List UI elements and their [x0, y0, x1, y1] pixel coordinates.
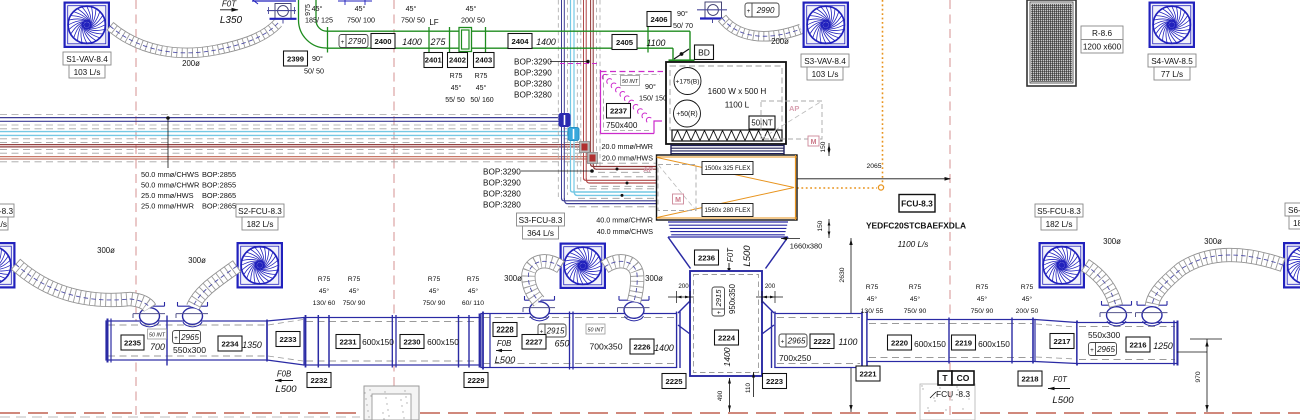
- riser insulation dashed: [557, 0, 559, 200]
- label box 2236: [695, 250, 719, 265]
- svg-text:45°: 45°: [466, 4, 477, 13]
- ribbed flex connector: [668, 222, 788, 235]
- pipe HWR insulation (dashed): [0, 152, 590, 154]
- svg-text:45°: 45°: [451, 84, 462, 92]
- label box 2229: [464, 373, 488, 388]
- svg-text:2790: 2790: [347, 37, 366, 46]
- label box 2218: [1018, 371, 1042, 386]
- svg-text:2915: 2915: [714, 289, 723, 308]
- label box 2406: [647, 12, 671, 27]
- FCU flex connector top: [671, 145, 784, 156]
- svg-text:L500: L500: [275, 384, 297, 395]
- flex fan S5 to duct: [1085, 265, 1116, 306]
- svg-text:182 L/s: 182 L/s: [1046, 220, 1073, 229]
- FCU filter strip: [672, 130, 782, 141]
- label +2965 c: [1089, 343, 1117, 356]
- svg-text:2400: 2400: [374, 37, 391, 46]
- svg-text:1400: 1400: [536, 37, 556, 47]
- FCU-8.3 zone box: [920, 384, 975, 420]
- svg-text:2229: 2229: [467, 376, 484, 385]
- svg-text:77 L/s: 77 L/s: [1161, 70, 1183, 79]
- svg-text:50/ 70: 50/ 70: [673, 21, 693, 30]
- svg-text:600x150: 600x150: [427, 337, 459, 347]
- plenum 2224: [690, 271, 762, 376]
- riser HWS red pair: [583, 0, 585, 178]
- svg-text:40.0 mmø/CHWS: 40.0 mmø/CHWS: [597, 227, 654, 236]
- svg-text:1400: 1400: [654, 343, 674, 353]
- label box 2234: [218, 336, 242, 351]
- transition 2233: [267, 318, 304, 366]
- svg-text:750/ 90: 750/ 90: [904, 308, 927, 315]
- label box 2223: [763, 374, 787, 389]
- fan S1-FCU label partial: [0, 204, 14, 230]
- svg-text:AP: AP: [643, 165, 653, 174]
- svg-text:R75: R75: [866, 284, 879, 291]
- svg-text:90°: 90°: [677, 9, 688, 18]
- svg-text:2228: 2228: [496, 325, 514, 334]
- label +2915 vertical: [712, 287, 725, 316]
- fan S6 partial (right edge): [1284, 243, 1300, 287]
- label 50INT a: [621, 76, 640, 86]
- svg-text:103 L/s: 103 L/s: [812, 70, 839, 79]
- green duct main run: [327, 30, 690, 32]
- dim 2630: [850, 238, 852, 412]
- svg-text:18: 18: [1293, 219, 1300, 228]
- plenum left wing: [677, 301, 691, 368]
- svg-text:LF: LF: [429, 18, 438, 27]
- label box BD: [695, 45, 714, 60]
- duct D mid flange: [569, 312, 571, 370]
- flex fan S3 left: [528, 261, 561, 301]
- svg-text:R75: R75: [348, 276, 361, 283]
- label 1500x325 FLEX: [702, 162, 753, 175]
- svg-text:FCU-8.3: FCU-8.3: [901, 198, 933, 208]
- fan S4 label: [1148, 54, 1196, 80]
- svg-text:1350: 1350: [242, 340, 262, 350]
- duct 2216 (550x300): [1077, 323, 1177, 364]
- svg-text:L500: L500: [495, 355, 516, 365]
- svg-text:R75: R75: [467, 276, 480, 283]
- duct F flange: [948, 318, 950, 364]
- label +2915 b: [538, 324, 566, 337]
- label box 2228: [493, 323, 517, 337]
- svg-text:2222: 2222: [813, 337, 830, 346]
- svg-text:45°: 45°: [429, 287, 440, 295]
- svg-text:R-8.6: R-8.6: [1092, 29, 1112, 38]
- fan S3 top label: [801, 54, 849, 80]
- gridline column B (x=394): [393, 0, 395, 420]
- svg-text:T: T: [942, 373, 948, 383]
- svg-text:2221: 2221: [859, 369, 877, 378]
- svg-text:2403: 2403: [475, 56, 492, 65]
- svg-text:2220: 2220: [891, 338, 908, 347]
- svg-text:45°: 45°: [867, 295, 878, 303]
- dim 150 lower: [828, 219, 830, 238]
- svg-text:200/ 50: 200/ 50: [461, 16, 485, 25]
- svg-text:+: +: [341, 39, 345, 46]
- label box 2402: [448, 53, 468, 68]
- fan S3 bottom label: [517, 213, 565, 239]
- pipe HWS insulation (dashed): [0, 141, 583, 143]
- svg-text:F0T: F0T: [222, 0, 237, 9]
- svg-text:1100 L: 1100 L: [725, 101, 750, 110]
- damper symbol D2: [697, 2, 727, 23]
- svg-text:45°: 45°: [468, 287, 479, 295]
- svg-text:45°: 45°: [312, 4, 323, 13]
- svg-text:2235: 2235: [124, 338, 142, 347]
- svg-text:2236: 2236: [698, 253, 715, 262]
- svg-text:+: +: [174, 335, 178, 342]
- fan S2 label: [236, 204, 284, 230]
- svg-text:600x150: 600x150: [362, 337, 394, 347]
- svg-text:BOP:2855: BOP:2855: [202, 181, 236, 190]
- svg-text:BOP:3280: BOP:3280: [483, 201, 521, 210]
- svg-text:2405: 2405: [616, 38, 634, 47]
- svg-text:750/ 90: 750/ 90: [971, 308, 994, 315]
- svg-text:1100: 1100: [839, 337, 858, 347]
- label +2990: [745, 3, 779, 17]
- label box 2235: [121, 335, 144, 350]
- svg-text:BOP:3280: BOP:3280: [514, 80, 552, 89]
- spigot oval D2: [618, 296, 650, 321]
- svg-text:BOP:2855: BOP:2855: [202, 170, 236, 179]
- svg-text:750x400: 750x400: [606, 121, 638, 130]
- label +2790: [339, 35, 368, 48]
- flex duct S1 to damper: [110, 23, 278, 53]
- svg-text:+: +: [781, 338, 785, 345]
- pipe labels leader: [167, 118, 169, 168]
- labels R75 right group: [861, 284, 884, 315]
- label T box: [938, 371, 952, 385]
- svg-text:2225: 2225: [665, 377, 683, 386]
- svg-text:300ø: 300ø: [504, 274, 522, 283]
- svg-text:R75: R75: [475, 73, 488, 80]
- svg-text:2226: 2226: [633, 342, 650, 351]
- svg-text:200ø: 200ø: [182, 59, 200, 68]
- fan S5-FCU-8.3: [1040, 243, 1084, 287]
- label box 2219: [952, 335, 976, 350]
- svg-text:1500x 325 FLEX: 1500x 325 FLEX: [704, 165, 750, 172]
- svg-text:700x350: 700x350: [590, 342, 623, 352]
- pipe node dots: [616, 168, 619, 171]
- label box 2233: [276, 332, 300, 347]
- flex fan S1-FCU to duct: [16, 264, 151, 308]
- svg-text:F0T: F0T: [1053, 375, 1068, 384]
- svg-text:50 INT: 50 INT: [149, 333, 166, 339]
- svg-text:2406: 2406: [650, 15, 667, 24]
- grille R-8.6 label: [1081, 26, 1123, 53]
- svg-text:S3-VAV-8.4: S3-VAV-8.4: [804, 57, 846, 66]
- duct C flanges: [305, 315, 307, 368]
- svg-text:550x300: 550x300: [173, 345, 206, 355]
- fire barrier line (y=413): [0, 412, 1300, 414]
- dim 1660x380: [781, 237, 787, 240]
- svg-text:YEDFC20STCBAEFXDLA: YEDFC20STCBAEFXDLA: [866, 221, 966, 231]
- damper symbol D1: [252, 0, 297, 24]
- svg-text:50/ 50: 50/ 50: [304, 67, 324, 76]
- svg-text:AP: AP: [789, 104, 799, 113]
- svg-text:L500: L500: [1052, 395, 1074, 406]
- svg-text:M: M: [811, 139, 817, 146]
- return grille R-8.6: [1027, 0, 1076, 86]
- svg-text:2237: 2237: [610, 107, 627, 116]
- label box 2404: [508, 34, 532, 49]
- FCU connection +175(B): [674, 68, 701, 95]
- svg-text:2218: 2218: [1021, 374, 1039, 383]
- svg-text:2227: 2227: [525, 338, 542, 347]
- svg-text:BOP:3290: BOP:3290: [514, 58, 552, 67]
- svg-text:2915: 2915: [546, 326, 565, 335]
- label 50INT d: [586, 324, 605, 334]
- label box 2220: [888, 335, 912, 350]
- FCU cabinet: [666, 62, 786, 144]
- orange control riser: [882, 0, 884, 184]
- svg-text:2401: 2401: [425, 56, 443, 65]
- svg-text:2965: 2965: [787, 336, 806, 345]
- dim 150 upper: [828, 143, 830, 156]
- svg-text:2404: 2404: [511, 37, 529, 46]
- green duct flange ticks: [327, 27, 329, 53]
- svg-text:1560x 280 FLEX: 1560x 280 FLEX: [704, 207, 750, 214]
- svg-text:45°: 45°: [406, 4, 417, 13]
- label 50INT c: [148, 329, 167, 339]
- svg-text:90°: 90°: [645, 82, 656, 91]
- label box 2216: [1126, 337, 1150, 352]
- svg-text:364 L/s: 364 L/s: [527, 229, 554, 238]
- label box 2403: [474, 53, 495, 68]
- svg-text:S5-FCU-8.3: S5-FCU-8.3: [1037, 207, 1081, 216]
- fan S1-VAV-8.4: [65, 3, 109, 47]
- svg-text:2065: 2065: [866, 163, 881, 170]
- transition 2236 trapezoid: [668, 237, 788, 269]
- label +2965 b: [779, 334, 807, 347]
- fan S2-FCU-8.3: [238, 243, 282, 287]
- svg-text:CO: CO: [957, 373, 970, 383]
- svg-text:50 INT: 50 INT: [622, 79, 639, 85]
- magenta duct 2237 outline: [560, 64, 663, 134]
- flex plenum box: [657, 155, 798, 220]
- label +2965 a: [173, 331, 201, 344]
- svg-text:1200 x600: 1200 x600: [1083, 43, 1122, 52]
- svg-text:45°: 45°: [977, 295, 988, 303]
- spigot oval G1: [1100, 301, 1132, 326]
- svg-text:BOP:3290: BOP:3290: [514, 69, 552, 78]
- svg-text:700x250: 700x250: [779, 353, 811, 363]
- svg-text:1250: 1250: [1153, 341, 1173, 351]
- svg-text:L500: L500: [742, 245, 753, 267]
- svg-text:150/ 150: 150/ 150: [639, 94, 667, 103]
- svg-text:BD: BD: [698, 47, 710, 57]
- svg-text:S1-VAV-8.4: S1-VAV-8.4: [66, 55, 108, 64]
- svg-text:2224: 2224: [718, 333, 736, 342]
- flex fan S6 to duct: [1152, 255, 1283, 306]
- svg-text:185/ 125: 185/ 125: [305, 16, 333, 25]
- svg-text:F0T: F0T: [726, 247, 735, 262]
- svg-text:R75: R75: [428, 276, 441, 283]
- label FCU-8.3 tag: [899, 195, 935, 213]
- plenum right wing: [762, 301, 775, 368]
- fan S1-FCU partial (left edge): [0, 243, 14, 287]
- svg-text:2402: 2402: [449, 56, 466, 65]
- svg-text:40.0 mmø/CHWR: 40.0 mmø/CHWR: [596, 216, 653, 225]
- label box 2225: [662, 374, 686, 389]
- svg-text:F0B: F0B: [277, 370, 291, 379]
- label 1560x280 FLEX: [702, 204, 753, 217]
- duct E flange pair: [861, 312, 863, 370]
- duct 2227/2226 (700x350): [481, 314, 677, 368]
- svg-text:R75: R75: [318, 276, 331, 283]
- label box 2222: [810, 334, 834, 349]
- svg-text:650: 650: [555, 339, 570, 349]
- fan S5 label: [1035, 204, 1083, 230]
- svg-text:BOP:2865: BOP:2865: [202, 202, 236, 211]
- svg-text:2965: 2965: [180, 333, 199, 342]
- svg-text:970: 970: [1195, 371, 1202, 383]
- dim 490: [728, 378, 731, 384]
- svg-text:200/ 50: 200/ 50: [1016, 308, 1039, 315]
- green duct riser 975: [298, 0, 300, 20]
- svg-text:L/s: L/s: [0, 220, 7, 229]
- svg-text:550x300: 550x300: [1088, 330, 1120, 340]
- svg-text:130/ 55: 130/ 55: [861, 308, 884, 315]
- svg-text:2233: 2233: [279, 335, 296, 344]
- svg-text:200ø: 200ø: [771, 37, 789, 46]
- flex duct D2 to fan S3: [722, 18, 801, 36]
- svg-text:2216: 2216: [1129, 340, 1146, 349]
- svg-text:300ø: 300ø: [97, 246, 115, 255]
- label box 2237: [607, 104, 631, 119]
- svg-text:45°: 45°: [349, 287, 360, 295]
- duct G end flange: [1173, 321, 1175, 366]
- svg-text:50.0 mmø/CHWR: 50.0 mmø/CHWR: [141, 181, 199, 190]
- BOP group 1 leader: [550, 61, 588, 63]
- svg-text:182 L/s: 182 L/s: [247, 220, 274, 229]
- svg-text:1100 L/s: 1100 L/s: [898, 240, 929, 249]
- svg-text:1400: 1400: [402, 37, 422, 47]
- duct D left flange: [482, 312, 484, 370]
- svg-text:55/ 50: 55/ 50: [445, 97, 465, 104]
- riser insulation dashed 2: [580, 0, 582, 185]
- svg-text:750/ 100: 750/ 100: [347, 16, 375, 25]
- label 50INT b: [749, 116, 775, 129]
- label box 2399: [284, 51, 308, 66]
- svg-text:950x350: 950x350: [728, 283, 737, 314]
- svg-text:L350: L350: [220, 15, 243, 26]
- svg-text:103 L/s: 103 L/s: [74, 68, 101, 77]
- pipe run HWR to coil: [591, 164, 657, 167]
- pipe CHWS insulation (dashed): [0, 114, 562, 116]
- svg-text:+50(R): +50(R): [676, 111, 697, 118]
- svg-text:2223: 2223: [766, 377, 783, 386]
- svg-text:600x150: 600x150: [914, 339, 946, 349]
- svg-text:F0B: F0B: [497, 339, 511, 348]
- svg-text:S6-F: S6-F: [1288, 206, 1300, 215]
- svg-text:BOP:3290: BOP:3290: [483, 179, 521, 188]
- svg-text:130/ 60: 130/ 60: [313, 300, 336, 307]
- svg-text:50/ 160: 50/ 160: [470, 97, 493, 104]
- svg-text:BOP:3290: BOP:3290: [483, 168, 521, 177]
- svg-text:275: 275: [430, 37, 446, 47]
- svg-text:S4-VAV-8.5: S4-VAV-8.5: [1151, 57, 1193, 66]
- svg-text:1400: 1400: [722, 347, 732, 366]
- labels R75 left group: [313, 276, 336, 307]
- AP zone right: [761, 101, 822, 146]
- svg-text:20.0 mmø/HWS: 20.0 mmø/HWS: [602, 154, 653, 163]
- valve CHWR (cyan): [568, 128, 579, 141]
- magenta flex connection: [602, 74, 651, 122]
- svg-text:2232: 2232: [310, 376, 327, 385]
- svg-text:2230: 2230: [403, 337, 420, 346]
- label CO box: [952, 371, 974, 385]
- wall line bottom-left: [0, 416, 360, 418]
- spigot oval A1: [133, 302, 165, 327]
- pipe 25 HWR (salmon pair): [0, 156, 590, 158]
- label box 2221: [856, 366, 880, 381]
- label box 2217: [1050, 334, 1074, 349]
- concrete column: [363, 386, 419, 420]
- svg-text:2990: 2990: [756, 6, 775, 15]
- fan S4-VAV-8.5: [1150, 3, 1194, 47]
- svg-text:200: 200: [765, 283, 776, 290]
- riser CHWR cyan pair: [570, 0, 572, 190]
- duct 2231/2230 (600x150): [304, 318, 481, 366]
- fan S6 label partial: [1285, 203, 1300, 229]
- label box 2400: [371, 34, 395, 49]
- green duct turndown BD: [672, 48, 674, 59]
- svg-text:M: M: [675, 197, 681, 204]
- svg-text:45°: 45°: [1022, 295, 1033, 303]
- svg-text:150: 150: [817, 220, 824, 231]
- spigot oval D1: [523, 296, 555, 321]
- svg-text:50INT: 50INT: [751, 118, 772, 127]
- valve CHWS (navy): [559, 114, 570, 127]
- svg-text:2217: 2217: [1053, 337, 1070, 346]
- fan S1 label: [63, 52, 111, 78]
- svg-text:45°: 45°: [476, 84, 487, 92]
- duct A flange: [166, 316, 168, 366]
- svg-text:BOP:3280: BOP:3280: [483, 190, 521, 199]
- svg-text:300ø: 300ø: [188, 256, 206, 265]
- pipe run CHWR to coil: [571, 190, 658, 192]
- flex fan S2 to duct: [193, 266, 237, 307]
- label box 2232: [307, 373, 331, 388]
- dim 970: [1190, 338, 1222, 340]
- pipe run insulation dashed: [596, 162, 657, 164]
- pipe 50 CHWS (navy pair): [0, 117, 561, 119]
- svg-text:45°: 45°: [910, 295, 921, 303]
- svg-text:1100: 1100: [647, 38, 666, 48]
- label box 2401: [424, 53, 443, 68]
- svg-text:+: +: [1090, 347, 1094, 354]
- svg-text:BOP:3280: BOP:3280: [514, 91, 552, 100]
- green duct elbow: [299, 20, 327, 48]
- pipe run CHWS to coil: [562, 198, 658, 201]
- label box 2230: [400, 335, 424, 349]
- orange control horizontal: [797, 187, 877, 189]
- svg-text:2630: 2630: [839, 267, 846, 282]
- pipe 50 CHWR (cyan pair): [0, 131, 570, 133]
- pipe run HWS to coil: [584, 178, 658, 180]
- svg-text:700: 700: [150, 342, 165, 352]
- valve HWR (red): [588, 153, 598, 164]
- svg-text:490: 490: [717, 390, 724, 401]
- svg-text:1660x380: 1660x380: [790, 242, 822, 251]
- svg-text:25.0 mmø/HWR: 25.0 mmø/HWR: [141, 202, 194, 211]
- svg-text:300ø: 300ø: [645, 274, 663, 283]
- gridline column A (x=136): [135, 0, 137, 420]
- FCU connection +50(R): [674, 100, 701, 127]
- label box 2405: [612, 35, 637, 50]
